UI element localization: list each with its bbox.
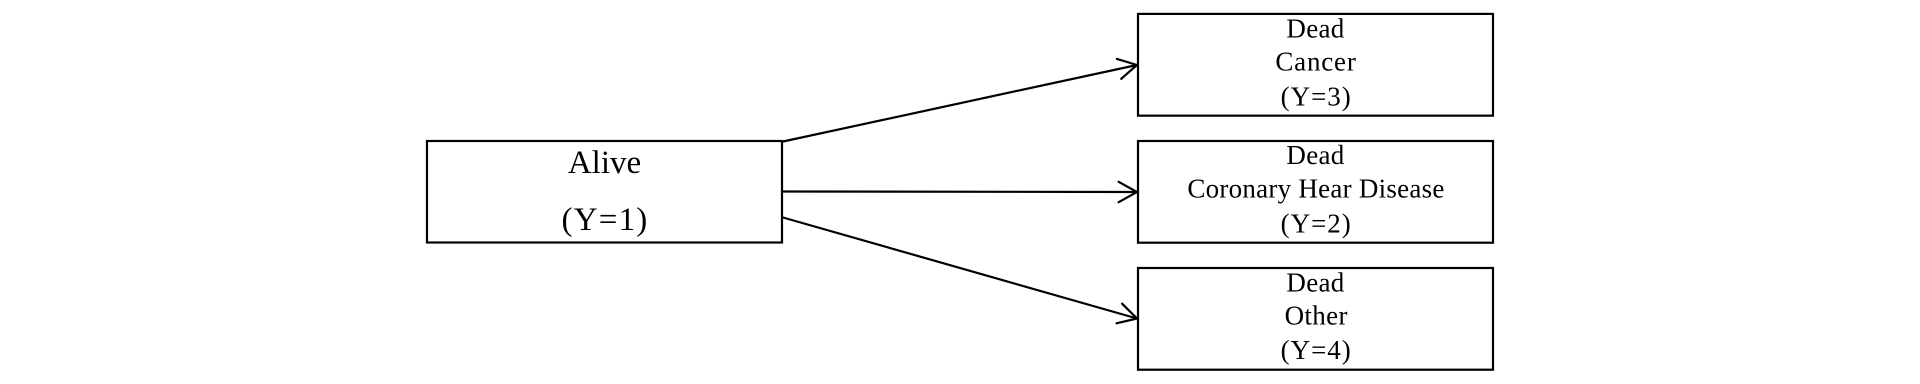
svg-text:(Y=1): (Y=1) [562,202,649,238]
arrow Alive to Dead Cancer [783,59,1137,142]
arrow Alive to Dead Coronary Hear Disease [783,182,1137,202]
svg-text:Coronary Hear Disease: Coronary Hear Disease [1187,174,1444,204]
svg-text:(Y=2): (Y=2) [1281,209,1352,239]
svg-text:Dead: Dead [1286,13,1344,43]
svg-text:Dead: Dead [1286,140,1344,170]
svg-text:Cancer: Cancer [1275,47,1356,77]
svg-text:(Y=3): (Y=3) [1281,82,1352,112]
node Dead Coronary Hear Disease (Y=2) [1138,140,1493,243]
node Dead Cancer (Y=3) [1138,13,1493,115]
node Dead Other (Y=4) [1138,267,1493,369]
svg-text:Alive: Alive [568,145,641,181]
svg-text:(Y=4): (Y=4) [1281,335,1352,365]
svg-text:Other: Other [1285,301,1348,331]
svg-text:Dead: Dead [1286,267,1344,297]
node Alive (Y=1) [427,141,782,243]
arrow Alive to Dead Other [783,218,1137,324]
